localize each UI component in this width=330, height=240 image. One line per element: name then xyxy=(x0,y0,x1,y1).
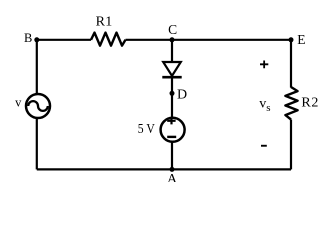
svg-text:R2: R2 xyxy=(301,96,318,111)
wire right rail upper xyxy=(290,40,292,88)
resistor R2 xyxy=(285,87,318,120)
label - polarity xyxy=(261,145,267,147)
wire left rail lower xyxy=(36,117,38,169)
wire top-left segment B to R1 xyxy=(37,39,91,41)
wire left rail upper xyxy=(36,40,38,95)
label + polarity xyxy=(260,61,268,69)
wire 5V source to bottom rail xyxy=(171,142,173,170)
wire middle branch C to diode xyxy=(171,40,173,63)
node A xyxy=(167,167,178,187)
svg-text:A: A xyxy=(167,172,178,182)
diode D1 xyxy=(162,62,181,77)
svg-text:D: D xyxy=(177,87,187,102)
resistor R1 xyxy=(91,15,126,46)
svg-text:R1: R1 xyxy=(96,15,113,30)
wire bottom rail xyxy=(37,168,291,170)
voltage source 5V xyxy=(138,117,185,142)
node B xyxy=(24,31,39,45)
svg-text:E: E xyxy=(297,32,305,47)
voltage source v (AC) xyxy=(15,94,50,118)
label vs xyxy=(259,96,270,114)
svg-text:B: B xyxy=(24,31,32,45)
wire right rail lower xyxy=(290,120,292,170)
node E xyxy=(289,32,306,47)
svg-text:5 V: 5 V xyxy=(138,122,155,137)
node C xyxy=(168,22,177,42)
wire diode to node D and to 5V source xyxy=(171,77,173,118)
svg-text:v: v xyxy=(15,96,22,110)
svg-text:C: C xyxy=(168,22,177,37)
node D xyxy=(170,87,188,102)
wire top segment R1 to E xyxy=(126,39,292,41)
svg-text:vs: vs xyxy=(259,96,270,114)
